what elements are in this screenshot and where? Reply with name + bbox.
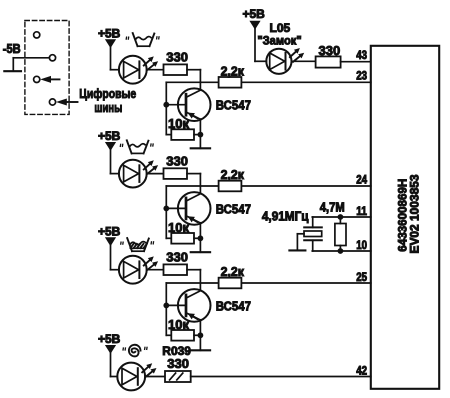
svg-text:2,2к: 2,2к xyxy=(221,264,245,279)
svg-text:330: 330 xyxy=(319,43,341,58)
svg-text:23: 23 xyxy=(356,71,367,83)
svg-text:330: 330 xyxy=(166,249,188,264)
svg-text:4,7М: 4,7М xyxy=(320,201,345,215)
svg-text:EV02 1003853: EV02 1003853 xyxy=(408,174,422,253)
svg-text:+5В: +5В xyxy=(98,129,121,143)
svg-text:-5В: -5В xyxy=(3,42,21,56)
svg-text:"Замок": "Замок" xyxy=(257,33,301,47)
svg-text:2,2к: 2,2к xyxy=(221,63,245,78)
svg-text:43: 43 xyxy=(356,50,367,62)
svg-text:10к: 10к xyxy=(168,220,189,235)
svg-text:330: 330 xyxy=(166,153,188,168)
svg-text:+5В: +5В xyxy=(98,332,121,346)
svg-text:2,2к: 2,2к xyxy=(221,167,245,182)
svg-text:24: 24 xyxy=(356,175,367,187)
svg-text:+5В: +5В xyxy=(243,7,266,21)
svg-text:ВС547: ВС547 xyxy=(216,201,251,216)
svg-text:4,91МГц: 4,91МГц xyxy=(262,210,309,224)
svg-text:10к: 10к xyxy=(168,116,189,131)
svg-text:10к: 10к xyxy=(168,317,189,332)
svg-text:Цифровые: Цифровые xyxy=(79,86,136,101)
svg-text:+5В: +5В xyxy=(98,26,121,40)
svg-text:+5В: +5В xyxy=(98,225,121,239)
svg-text:ВС547: ВС547 xyxy=(216,298,251,313)
svg-text:330: 330 xyxy=(166,49,188,64)
svg-text:ВС547: ВС547 xyxy=(216,98,251,113)
svg-text:330: 330 xyxy=(167,356,189,371)
svg-text:шины: шины xyxy=(94,100,122,115)
